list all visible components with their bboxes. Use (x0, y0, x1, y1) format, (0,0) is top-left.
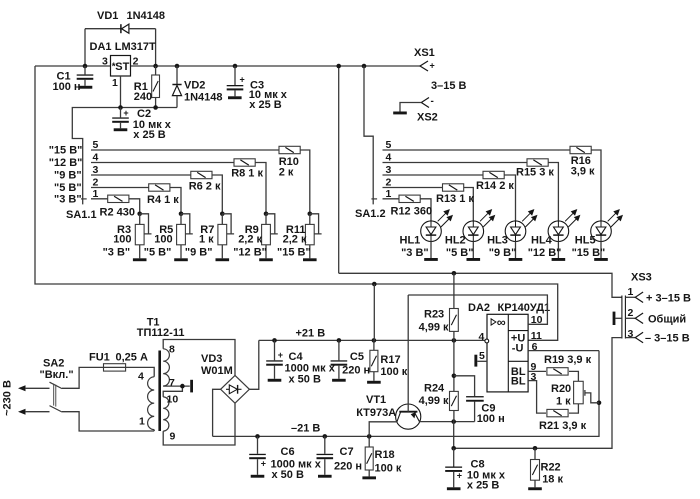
capacitor C8 10 мк х 25 В (445, 448, 462, 487)
junction rail / output feed (336, 64, 341, 69)
wire R17 bottom lead (373, 372, 375, 381)
junction R5 top node (179, 212, 184, 217)
wire R7 top lead (221, 214, 223, 225)
svg-text:HL5: HL5 (575, 234, 596, 246)
ground common (XS3 pin 2) (613, 312, 616, 325)
junction rail / VD2 (175, 64, 180, 69)
wire R19 to R20 top (569, 371, 578, 381)
svg-text:1: 1 (112, 77, 118, 89)
resistor R24 (450, 391, 459, 410)
junction R24 / C9 node (452, 374, 457, 379)
svg-text:"15 В": "15 В" (49, 144, 83, 156)
svg-text:2: 2 (133, 56, 139, 68)
svg-text:SA1.1: SA1.1 (66, 209, 97, 221)
wire HL1 cathode lead (430, 241, 432, 258)
svg-text:х 25 В: х 25 В (249, 99, 281, 111)
svg-text:XS3: XS3 (631, 272, 652, 284)
svg-text:3,9 к: 3,9 к (571, 166, 595, 178)
wire R1 bottom lead (155, 98, 157, 108)
wire bridge + to +21V rail (249, 340, 258, 389)
svg-text:"12 В": "12 В" (49, 157, 83, 169)
LED HL2 (463, 210, 495, 242)
junction +21V / C5 (337, 338, 342, 343)
wire SA1.2 contact 2 bus (383, 187, 443, 189)
svg-text:R4 1 к: R4 1 к (147, 194, 179, 206)
ground R9 (259, 258, 273, 261)
svg-text:VD1: VD1 (97, 10, 118, 22)
resistor R13 1 к (443, 184, 464, 191)
LED HL4 (548, 210, 579, 242)
wire R22 bottom lead (534, 480, 536, 487)
svg-text:~230 В: ~230 В (2, 380, 14, 416)
svg-text:C7: C7 (340, 446, 354, 458)
ground center tap (190, 380, 193, 393)
svg-text:"9 В": "9 В" (185, 246, 213, 258)
svg-text:3: 3 (386, 164, 392, 176)
svg-text:4,99 к: 4,99 к (419, 395, 449, 407)
resistor R12 360 (399, 195, 420, 202)
capacitor C6 (249, 436, 322, 480)
svg-text:BL: BL (511, 376, 526, 388)
junction rail / SA1.2 branch (362, 64, 367, 69)
wire XS2 to ground (400, 103, 421, 112)
capacitor C3 (227, 66, 288, 111)
resistor R11 (305, 224, 314, 244)
svg-text:Общий: Общий (648, 313, 686, 325)
resistor R4 1 к (149, 184, 170, 191)
svg-text:VD2: VD2 (184, 80, 205, 92)
junction rail / VD1 right / R1 (153, 64, 158, 69)
wire SA1.1 contact 4 bus (91, 162, 234, 164)
ground C3 ground (228, 96, 242, 99)
transformer T1 core (158, 351, 161, 432)
wire R24 bottom lead (453, 411, 455, 422)
regulator DA1 LM317T (111, 56, 131, 77)
svg-text:2,2 к: 2,2 к (238, 234, 262, 246)
wire SA1.1 contact 5 bus (91, 149, 279, 151)
junction ADJ / C2 / DA1 pin1 (118, 105, 123, 110)
svg-text:2,2 к: 2,2 к (283, 234, 307, 246)
junction -21V / VT1 collector / R18 (367, 434, 372, 439)
wire DA2 pin 6 -U line (528, 350, 599, 352)
connector XS3 body (622, 296, 626, 339)
op-amp DA2 KR140UD1 (487, 314, 528, 392)
wire R13 to LED HL2 (464, 188, 474, 221)
resistor R17 (370, 350, 378, 371)
svg-text:1 к: 1 к (199, 234, 214, 246)
svg-text:–21 В: –21 В (291, 423, 320, 435)
junction rail / C3 (233, 64, 238, 69)
wire R14 to LED HL3 (504, 175, 515, 221)
wire R9 bottom lead (265, 245, 267, 258)
svg-text:HL4: HL4 (531, 234, 553, 246)
wire R17 top lead (373, 340, 375, 350)
connector XS2 (421, 96, 434, 108)
svg-text:"3 В": "3 В" (401, 247, 429, 259)
svg-text:1000 мк х: 1000 мк х (285, 362, 336, 374)
diode VD1 1N4148 (85, 24, 156, 66)
wire bridge - to -21V rail (213, 389, 221, 436)
LED HL3 (505, 210, 537, 242)
LED HL1 (421, 210, 453, 242)
svg-text:9: 9 (170, 431, 176, 443)
svg-text:х 50 В: х 50 В (272, 469, 304, 481)
resistor R1 240 (152, 75, 160, 98)
svg-text:100 к: 100 к (375, 462, 402, 474)
ground C7 ground (318, 475, 332, 478)
resistor R14 2 к (483, 171, 504, 178)
svg-text:3: 3 (102, 56, 108, 68)
svg-text:КР140УД1: КР140УД1 (498, 302, 551, 314)
junction R20 wiper / -U line (597, 401, 602, 406)
svg-text:+: + (278, 350, 283, 360)
svg-text:C5: C5 (350, 351, 364, 363)
resistor R22 (531, 460, 540, 481)
svg-text:DA1: DA1 (90, 41, 112, 53)
wire SA1.1 contact 3 bus (91, 174, 191, 176)
wire SA1.2 contact 1 bus (383, 198, 400, 200)
wire T1 center tap pins 7-10 (163, 386, 190, 397)
ground R18 (362, 476, 376, 479)
wire R15 to LED HL4 (548, 163, 558, 221)
wire HL3 cathode lead (515, 241, 517, 258)
wire emitter node to -output line (453, 422, 455, 449)
diode VD2 1N4148 (172, 66, 181, 108)
svg-text:R22: R22 (541, 462, 561, 474)
connector XS1 (420, 61, 435, 72)
svg-text:R8 1 к: R8 1 к (231, 167, 263, 179)
wiper tap of R5 (181, 214, 193, 234)
wire T1 pin 8 to bridge AC top (163, 340, 235, 376)
svg-text:R2 430: R2 430 (100, 207, 135, 219)
svg-text:"9 В": "9 В" (489, 247, 517, 259)
svg-text:HL3: HL3 (487, 234, 508, 246)
wire SA1.1 contact 1 bus (91, 198, 108, 200)
ground HL4 (552, 258, 566, 261)
wire FU1 to T1 pin 4 (126, 367, 155, 376)
wire R1 top lead (155, 66, 157, 75)
contact XS3.3 (625, 332, 643, 343)
junction rail / VD1 left / C1 (83, 64, 88, 69)
svg-text:х 25 В: х 25 В (133, 129, 165, 141)
svg-text:7: 7 (169, 377, 175, 389)
svg-text:220 н: 220 н (334, 460, 362, 472)
mains arrow lower (18, 409, 26, 415)
ground R22 (528, 487, 542, 490)
ground R7 (216, 258, 230, 261)
bridge rectifier VD3 W01M (221, 375, 250, 403)
LED HL5 (591, 210, 623, 242)
svg-text:КТ973А: КТ973А (356, 407, 396, 419)
svg-text:0,25 А: 0,25 А (116, 352, 148, 364)
svg-text:2 к: 2 к (279, 167, 294, 179)
transformer T1 secondary winding upper (8-7) (163, 349, 169, 386)
junction R23-R24 / DA2 pin 4 node (452, 338, 457, 343)
svg-text:"3 В": "3 В" (103, 246, 131, 258)
svg-text:-U: -U (512, 342, 524, 354)
wire R3 bottom lead (139, 245, 141, 258)
svg-text:4: 4 (93, 152, 99, 164)
wire T1 primary bottom stub (153, 430, 155, 431)
wire +21V rail to +U line riser (373, 284, 375, 340)
wire R11 bottom lead (309, 245, 311, 258)
wiper tap of R9 (266, 214, 278, 234)
resistor R20 (574, 381, 584, 404)
svg-text:R13 1 к: R13 1 к (436, 193, 474, 205)
junction R11 top node (308, 212, 313, 217)
resistor R21 (547, 409, 568, 416)
resistor R15 3 к (527, 159, 548, 166)
wire HL5 cathode lead (600, 241, 602, 258)
junction +21V line tap (372, 282, 377, 287)
wire +output line to XS3 pin 1 (339, 273, 622, 297)
svg-text:VT1: VT1 (366, 394, 386, 406)
svg-text:х 25 В: х 25 В (467, 479, 499, 491)
wire SA1.2 contact 5 bus (383, 149, 571, 151)
svg-text:+ 3–15 В: + 3–15 В (646, 292, 691, 304)
wire ADJ line and SA1.1 pole feed (72, 108, 177, 205)
wire R9 top lead (265, 214, 267, 225)
junction R9 top node (264, 212, 269, 217)
contact XS3.1 (625, 292, 643, 303)
ground HL1 (424, 258, 438, 261)
svg-text:SA2: SA2 (43, 358, 64, 370)
svg-text:XS2: XS2 (417, 112, 438, 124)
junction +21V / C4 (272, 338, 277, 343)
wire R2 to divider node (129, 199, 140, 214)
svg-text:4: 4 (478, 331, 484, 343)
wire R4 to divider node (170, 188, 181, 214)
wire DA2 pin 9 to R19 (528, 370, 546, 372)
svg-text:∞: ∞ (497, 315, 506, 329)
svg-text:R20: R20 (551, 383, 571, 395)
wire VT1 collector to -21V rail (369, 422, 397, 437)
junction -21V / C7 (323, 434, 328, 439)
capacitor C2 (112, 108, 172, 141)
svg-text:1: 1 (386, 188, 392, 200)
svg-text:4: 4 (138, 371, 144, 383)
svg-text:HL2: HL2 (445, 234, 466, 246)
svg-text:5: 5 (386, 139, 392, 151)
svg-text:+: + (240, 74, 245, 84)
svg-text:DA2: DA2 (468, 302, 490, 314)
svg-text:"12 В": "12 В" (233, 246, 267, 258)
svg-text:2: 2 (386, 177, 392, 189)
resistor R23 (450, 309, 459, 332)
ground HL3 (509, 258, 523, 261)
mains arrow upper (18, 385, 26, 391)
resistor R10 2 к (279, 146, 300, 153)
wire VT1 base line (407, 295, 409, 404)
svg-text:240: 240 (134, 91, 152, 103)
wire VT1 emitter line (420, 421, 475, 423)
resistor R6 2 к (191, 171, 212, 178)
svg-text:1N4148: 1N4148 (127, 10, 166, 22)
svg-text:5: 5 (93, 139, 99, 151)
wire regulated output rail (131, 65, 421, 67)
wire XS3 pin2 to common ground (615, 317, 622, 319)
ground XS2 (393, 112, 407, 115)
wire R11 top lead (309, 214, 311, 225)
svg-text:W01M: W01M (201, 365, 233, 377)
svg-text:-: - (431, 96, 434, 107)
wire SA1.2 pole feed (364, 66, 373, 204)
ground HL5 (594, 258, 608, 261)
resistor R19 (547, 368, 568, 375)
svg-text:100 к: 100 к (380, 366, 407, 378)
svg-text:SA1.2: SA1.2 (355, 208, 386, 220)
transformer T1 primary winding (148, 377, 155, 430)
fuse FU1 0,25 A (104, 364, 126, 371)
svg-text:1N4148: 1N4148 (184, 92, 223, 104)
capacitor C7 (317, 436, 363, 474)
ground R3 (133, 258, 147, 261)
capacitor C4 (266, 340, 336, 385)
svg-text:5: 5 (479, 350, 485, 362)
junction +output / R23 (452, 271, 457, 276)
svg-text:C6: C6 (281, 446, 295, 458)
wire SA2 to FU1 (62, 367, 104, 388)
ground HL2 (467, 258, 481, 261)
wire R18 top lead (368, 436, 370, 447)
svg-text:R17: R17 (380, 354, 400, 366)
svg-text:R6 2 к: R6 2 к (189, 180, 221, 192)
wire R18 bottom lead (368, 470, 370, 476)
wire SA2 to T1 pin 1 (62, 412, 154, 431)
contact XS3.2 (625, 313, 643, 324)
svg-text:+: + (430, 61, 435, 71)
junction -output / R22 (533, 446, 538, 451)
junction emitter / R24 / -output node (451, 419, 456, 424)
wire SA1.2 contact 3 bus (383, 174, 484, 176)
svg-text:FU1: FU1 (89, 352, 110, 364)
wiper tap of R11 (310, 214, 322, 234)
wire mains lower to SA2 (25, 411, 50, 413)
svg-text:4: 4 (386, 152, 392, 164)
transistor VT1 KT973A (396, 404, 421, 429)
wire T1 pin 9 to bridge AC bottom (163, 403, 235, 445)
junction R7 top node (220, 212, 225, 217)
svg-text:+: + (123, 108, 128, 118)
svg-text:ТП112-11: ТП112-11 (137, 327, 185, 339)
svg-text:R21 3,9 к: R21 3,9 к (539, 420, 587, 432)
svg-text:100 н: 100 н (477, 413, 505, 425)
svg-text:"3 В": "3 В" (54, 193, 82, 205)
resistor R16 (570, 146, 591, 153)
svg-text:"5 В": "5 В" (144, 246, 172, 258)
capacitor C1 (53, 66, 94, 93)
svg-text:"5 В": "5 В" (446, 247, 474, 259)
wire HL2 cathode lead (472, 241, 474, 258)
wire R20 bottom to R21 (569, 404, 578, 413)
resistor R8 1 к (234, 159, 255, 166)
svg-text:1 к: 1 к (556, 396, 571, 408)
wire R24 top lead (453, 340, 455, 391)
svg-text:100: 100 (154, 234, 172, 246)
wire R7 bottom lead (221, 245, 223, 258)
svg-text:8: 8 (169, 344, 175, 356)
wire R5 top lead (180, 214, 182, 225)
wire R3 top lead (139, 214, 141, 225)
svg-text:XS1: XS1 (414, 47, 435, 59)
ground C4 ground (268, 379, 282, 382)
wire R21 to DA2 pin 3 (528, 381, 546, 414)
svg-text:100 н: 100 н (53, 81, 81, 93)
wire R12 to LED HL1 (420, 199, 431, 221)
svg-text:+: + (261, 459, 266, 469)
resistor R9 (262, 224, 271, 244)
wire R10 to divider node (300, 150, 310, 214)
ground R5 (174, 258, 188, 261)
switch SA2 (50, 382, 63, 412)
svg-text:4,99 к: 4,99 к (419, 321, 449, 333)
ground C8 (447, 487, 461, 490)
junction -21V / C6 (255, 434, 260, 439)
wire DA2 pin 10 output to VT1 base (408, 295, 547, 324)
svg-text:R18: R18 (375, 449, 395, 461)
resistor R3 (135, 224, 144, 244)
svg-text:LM317T: LM317T (115, 41, 156, 53)
junction +21V / R17 (372, 338, 377, 343)
wire vertical regulated rail to +output line (338, 66, 340, 273)
switch SA1.2 (371, 198, 377, 200)
ground C5 ground (332, 379, 346, 382)
svg-text:18 к: 18 к (542, 474, 563, 486)
wire +21V feed to op-amp +U pin 11 (35, 66, 558, 340)
capacitor C5 (331, 340, 371, 378)
svg-text:"15 В": "15 В" (572, 247, 606, 259)
svg-text:3: 3 (93, 164, 99, 176)
svg-text:"15 В": "15 В" (277, 246, 311, 258)
wire R8 to divider node (255, 163, 266, 214)
svg-text:R24: R24 (424, 382, 445, 394)
svg-text:2: 2 (628, 307, 634, 319)
wire SA1.1 contact 2 bus (91, 187, 149, 189)
svg-text:1: 1 (93, 188, 99, 200)
svg-text:220 н: 220 н (342, 365, 370, 377)
wire HL4 cathode lead (557, 241, 559, 258)
svg-text:1: 1 (628, 286, 634, 298)
wire R16 to LED HL5 (591, 150, 601, 221)
svg-text:R14 2 к: R14 2 к (476, 180, 514, 192)
pin 5 of DA2 (474, 355, 487, 367)
ground C1 ground (79, 86, 93, 89)
svg-text:х 50 В: х 50 В (289, 374, 321, 386)
wire mains upper to SA2 (25, 387, 50, 389)
svg-text:+21 В: +21 В (296, 327, 326, 339)
transformer T1 secondary winding lower (10-9) (163, 397, 169, 431)
wiper of R20 (585, 390, 599, 403)
svg-text:1: 1 (139, 416, 145, 428)
wire R23 top lead from +output (453, 273, 455, 308)
svg-text:C4: C4 (289, 351, 304, 363)
ground C2 ground (114, 128, 128, 131)
svg-text:"9 В": "9 В" (54, 169, 82, 181)
wiper tap of R3 (140, 214, 152, 234)
wire R5 bottom lead (180, 245, 182, 258)
svg-text:"12 В": "12 В" (528, 247, 562, 259)
wire SA1.2 contact 4 bus (383, 162, 528, 164)
resistor R7 (218, 224, 227, 244)
svg-text:+: + (457, 471, 462, 481)
junction center tap (180, 384, 185, 389)
ground C6 ground (251, 475, 265, 478)
wire XS3 pin 3 to -output line (454, 338, 622, 449)
ground R11 (303, 258, 317, 261)
wire input rail left segment (35, 65, 111, 67)
wire DA1 pin1 to ADJ line (120, 76, 122, 108)
svg-text:R19 3,9 к: R19 3,9 к (544, 354, 592, 366)
